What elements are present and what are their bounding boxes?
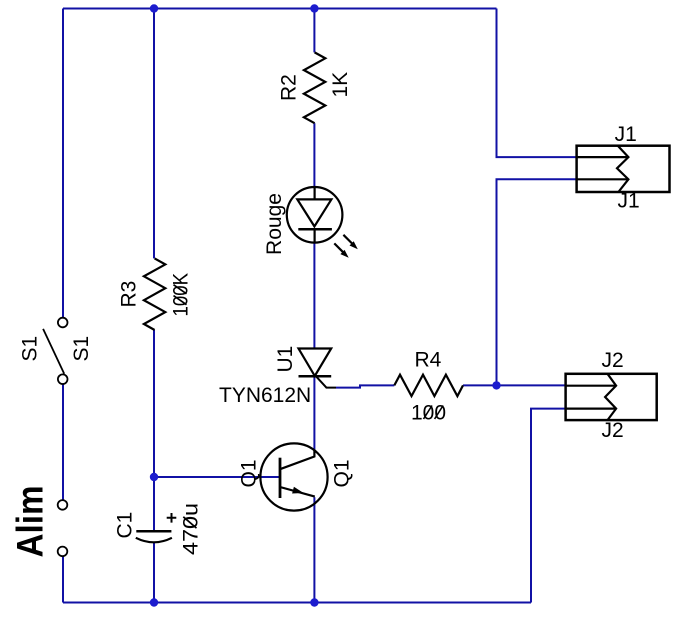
node junction dot bottom mid [150,598,158,606]
LED anode stub [314,187,316,199]
resistor R3 value 100K [170,273,193,317]
transistor Q1 label right [331,459,354,487]
transistor Q1 label left [238,459,261,487]
connector J1 pin 2 [577,178,629,180]
switch S1 terminal top [58,318,68,328]
transistor Q1 circle [260,443,327,510]
svg-text:Q1: Q1 [331,459,354,487]
switch S1 label right [70,336,93,362]
connector J1 pin 1 [577,156,629,158]
svg-text:U1: U1 [274,346,297,373]
LED light arrow 2 [334,243,343,252]
svg-text:R4: R4 [415,349,442,372]
thyristor U1 cathode bar [299,375,332,378]
node junction dot base [150,473,158,481]
svg-text:TYN612N: TYN612N [219,384,311,407]
wire Q1 emitter to bottom [313,497,315,602]
svg-text:R2: R2 [278,74,301,101]
wire bottom rail [63,602,531,604]
wire mid rail C1 to bottom [153,543,155,603]
capacitor C1 plate bottom curved [136,538,172,543]
wire left rail upper [62,9,64,318]
thyristor U1 triangle [299,349,332,377]
wire mid rail top to R3 [153,9,155,259]
resistor R3 [144,258,165,330]
resistor R2 value 1K [329,72,352,98]
svg-text:Alim: Alim [10,486,51,558]
svg-text:Q1: Q1 [238,459,261,487]
resistor R3 label [118,281,141,308]
capacitor C1 value 470u [180,503,203,555]
connector Alim label [10,486,51,558]
svg-text:J1: J1 [615,123,637,146]
node junction dot R4/J2 [492,381,500,389]
transistor Q1 emitter arrow [292,487,304,494]
connector Alim terminal top [58,500,68,510]
thyristor U1 gate lead [316,376,336,387]
resistor R4 [394,375,463,396]
svg-text:J1: J1 [618,190,640,213]
wire top right to J1 pin1 [497,9,577,158]
wire LED to thyristor [313,243,315,349]
wire left rail Alim to bottom [62,556,64,602]
wire junction to J2 pin1 [497,384,566,386]
wire thyristor to Q1 collector [313,377,315,449]
wire mid rail R3 to C1 [153,330,155,531]
LED cathode stub [314,229,316,243]
LED cathode bar [298,228,332,231]
transistor Q1 base bar [279,458,282,498]
svg-text:Rouge: Rouge [263,193,286,255]
connector J1 zigzag [617,146,628,192]
node junction dot top right [310,4,318,12]
thyristor U1 label [274,346,297,373]
connector J2 body [566,374,657,420]
wire R2 to LED [313,123,315,187]
svg-text:R3: R3 [118,281,141,308]
capacitor C1 plus sign [167,513,177,523]
switch S1 blade [43,329,64,374]
transistor Q1 emitter [280,487,315,497]
svg-text:100K: 100K [170,273,193,317]
wire top rail [63,8,497,10]
connector J2 pin 1 [566,385,617,387]
capacitor C1 plate top [136,530,171,533]
svg-text:470u: 470u [180,503,203,555]
svg-text:1K: 1K [329,72,352,98]
svg-text:C1: C1 [114,512,137,539]
svg-text:100: 100 [411,402,446,425]
wire gate to R4 [336,385,394,387]
capacitor C1 label [114,512,137,539]
switch S1 label left [19,336,42,362]
LED light arrow 1 [343,235,352,244]
connector J2 zigzag [605,374,616,420]
wire R4 to junction [463,384,497,386]
connector J2 pin 2 [566,408,617,410]
wire left rail S1 to Alim [62,384,64,500]
wire base of Q1 [154,476,280,478]
resistor R2 label [278,74,301,101]
svg-text:J2: J2 [602,419,624,442]
node junction dot bottom right [310,598,318,606]
svg-text:S1: S1 [70,336,93,362]
wire J1 pin2 down to junction [497,179,577,385]
node junction dot top mid [150,4,158,12]
switch S1 terminal bottom [58,374,68,384]
svg-text:J2: J2 [602,349,624,372]
LED label Rouge [263,193,286,255]
resistor R2 [304,52,325,123]
svg-text:S1: S1 [19,336,42,362]
wire J2 pin2 riser [531,409,566,603]
LED D1 circle [287,187,343,243]
connector J1 body [577,146,670,192]
transistor Q1 collector [280,449,314,469]
wire right rail top to R2 [313,9,315,53]
resistor R4 value 100 [411,402,446,425]
connector Alim terminal bottom [58,547,68,557]
LED triangle [297,199,331,226]
